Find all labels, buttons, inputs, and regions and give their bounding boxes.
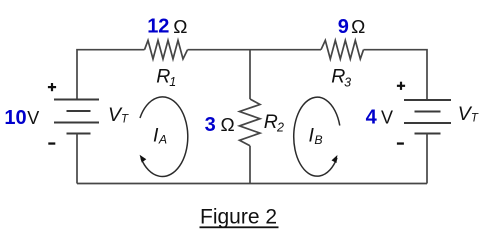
battery VT left (10 V source): [54, 100, 99, 134]
wire: top middle segment R1 to R3: [188, 49, 322, 51]
svg-text:IB: IB: [309, 125, 323, 147]
wire: R2 down to bottom rail: [249, 146, 251, 184]
svg-text:12: 12: [147, 16, 169, 38]
svg-text:R2: R2: [264, 111, 284, 135]
svg-text:V: V: [27, 108, 39, 128]
caption Figure 2: [200, 206, 279, 229]
svg-text:Ω: Ω: [173, 17, 187, 37]
svg-text:VT: VT: [458, 103, 479, 125]
label 9 Ω (R3 value): [338, 16, 366, 38]
svg-text:V: V: [381, 107, 393, 127]
plus sign left battery: [48, 83, 56, 91]
wire: top-right segment from R3 down to right battery: [364, 50, 428, 100]
svg-text:9: 9: [338, 16, 349, 38]
resistor R1: [145, 40, 188, 59]
mesh current arrow IA (clockwise loop): [140, 97, 188, 177]
svg-text:10: 10: [4, 107, 26, 129]
minus sign left battery: [48, 142, 55, 144]
svg-text:Ω: Ω: [221, 115, 235, 135]
minus sign right battery: [397, 142, 404, 144]
svg-text:R3: R3: [331, 66, 351, 90]
svg-text:4: 4: [366, 106, 378, 128]
svg-text:R1: R1: [156, 66, 176, 90]
wire: bottom rail: [77, 183, 427, 185]
wire: top-left segment from left battery up to R1: [77, 50, 145, 100]
label 10 V (left source value): [4, 107, 39, 129]
label 3 Ω (R2 value): [205, 114, 235, 136]
wire: right battery negative terminal down to bottom rail: [426, 134, 428, 184]
svg-text:Figure 2: Figure 2: [200, 206, 277, 229]
svg-text:VT: VT: [108, 104, 129, 126]
wire: top node down to R2: [249, 50, 251, 99]
svg-text:3: 3: [205, 114, 216, 136]
label 4 V (right source value): [366, 106, 393, 128]
plus sign right battery: [397, 82, 405, 90]
resistor R2: [240, 99, 261, 146]
svg-text:IA: IA: [153, 125, 167, 147]
wire: left battery negative terminal down to bottom rail: [76, 134, 78, 184]
svg-text:Ω: Ω: [351, 17, 365, 37]
mesh current arrow IB (counter-clockwise loop): [294, 97, 340, 176]
resistor R3: [321, 40, 364, 59]
battery VT right (4 V source): [404, 100, 451, 134]
label 12 Ω (R1 value): [147, 16, 187, 38]
